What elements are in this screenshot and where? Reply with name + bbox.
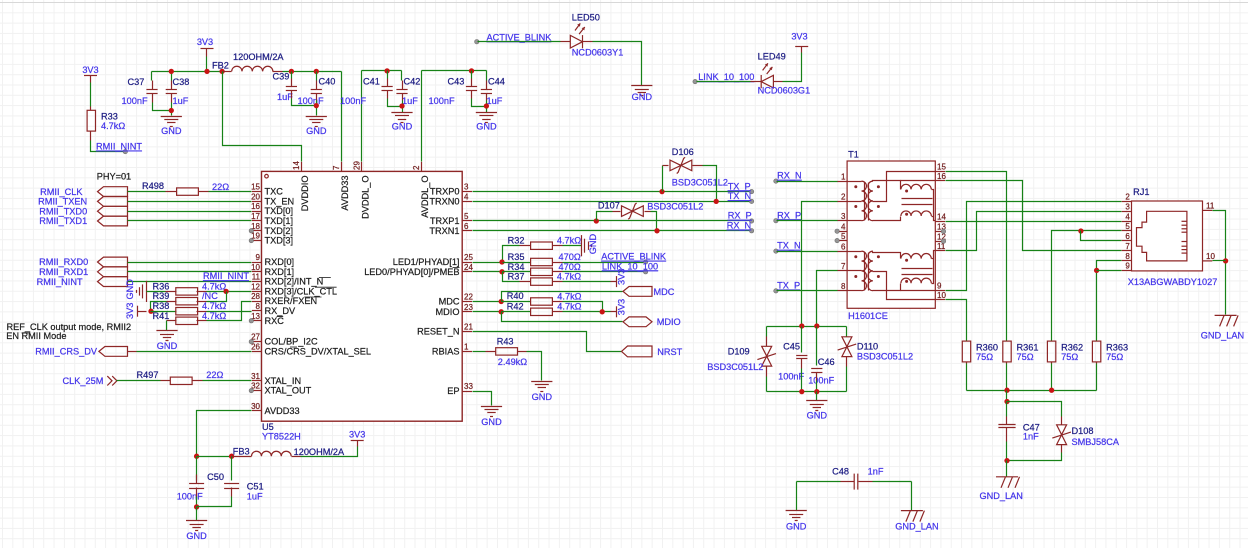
R36 lead right <box>197 291 207 293</box>
wire R497 to XTAL_IN pin 31 <box>203 380 252 382</box>
junction 3V3/rail <box>204 69 209 74</box>
LED LED49 <box>761 63 773 88</box>
T1 winding tap <box>848 181 862 183</box>
pin 22 MDC <box>462 301 472 303</box>
svg-text:MDC: MDC <box>654 287 675 297</box>
core line <box>868 253 870 291</box>
wire FB2 junction to DVDDIO pin 14 <box>223 72 302 162</box>
svg-text:C43: C43 <box>448 77 465 87</box>
junction C37/C38 bottom <box>169 108 174 113</box>
pin 31 XTAL_IN <box>252 380 262 382</box>
svg-text:29: 29 <box>352 161 361 170</box>
net stub TX_P <box>749 189 753 193</box>
resistor R363 <box>1092 341 1100 362</box>
core line <box>902 268 933 270</box>
LED50 lead right <box>583 41 593 43</box>
svg-text:R363: R363 <box>1106 342 1128 352</box>
svg-text:DVDDIO: DVDDIO <box>300 176 310 212</box>
svg-text:24: 24 <box>464 263 473 272</box>
polarity dot <box>905 259 908 262</box>
junction pin22/R40/MDC <box>499 299 504 304</box>
wire RX_P to T1 pin 3 <box>777 220 838 222</box>
C43 lead <box>471 91 473 99</box>
net stub RX_P <box>749 219 753 223</box>
svg-text:AVDD33: AVDD33 <box>265 406 300 416</box>
C38 lead top <box>171 81 173 90</box>
pin 13 RXC <box>252 320 262 322</box>
wire D109 to bottom rail <box>766 377 768 392</box>
svg-text:3V3: 3V3 <box>791 32 807 42</box>
svg-text:GND_LAN: GND_LAN <box>895 522 938 532</box>
T1 wire choke right <box>932 258 934 260</box>
svg-text:GND: GND <box>125 279 135 300</box>
svg-text:3: 3 <box>841 212 846 221</box>
R360 lead <box>966 341 968 342</box>
junction C45 top <box>799 323 804 328</box>
3V3 lead <box>611 281 617 283</box>
wire to D107 <box>597 212 613 221</box>
wire C46 bottom <box>816 381 818 392</box>
unconnected pin dot <box>249 319 253 323</box>
svg-text:30: 30 <box>251 402 260 411</box>
pin 18 TXD[2] <box>252 230 262 232</box>
svg-text:22Ω: 22Ω <box>206 370 223 380</box>
wire to LED50 <box>478 41 561 43</box>
junction C45 bottom <box>799 389 804 394</box>
D109 lead <box>766 337 768 347</box>
svg-text:7: 7 <box>1125 242 1130 251</box>
svg-text:NRST: NRST <box>657 347 682 357</box>
resistor R40 <box>531 298 553 305</box>
svg-text:120OHM/2A: 120OHM/2A <box>294 447 345 457</box>
svg-text:C51: C51 <box>247 482 264 492</box>
T1 pin 14 <box>935 221 945 223</box>
RJ1 pin 5 <box>1122 230 1132 232</box>
port RMII_CLK <box>98 187 128 197</box>
wire R41 to ground <box>166 321 168 331</box>
3V3 power bar (LED49) <box>795 46 808 48</box>
net stub LINK_10_100 (LED49) <box>693 79 697 83</box>
svg-text:GND: GND <box>392 122 413 132</box>
svg-text:100nF: 100nF <box>778 372 804 382</box>
resistor R35 <box>531 258 553 265</box>
svg-text:5: 5 <box>841 232 846 241</box>
port RMII_NINT <box>98 277 128 287</box>
wire T1 pin16 to RJ1 pin7 <box>946 181 1122 251</box>
svg-text:9: 9 <box>1125 262 1130 271</box>
svg-text:4.7kΩ: 4.7kΩ <box>557 302 581 312</box>
ground GND (C37/C38) <box>161 117 182 127</box>
wire RJ1 pin11 to GND_LAN <box>1213 211 1226 315</box>
svg-text:16: 16 <box>937 172 946 181</box>
svg-text:22Ω: 22Ω <box>212 182 229 192</box>
T1 wire pin16 <box>901 180 936 182</box>
wire R39 up to pin 12 net <box>207 292 227 302</box>
wire RMII_NINT to pin 11 <box>128 281 252 283</box>
pin 17 TXD[1] <box>252 220 262 222</box>
svg-text:4.7kΩ: 4.7kΩ <box>202 281 226 291</box>
ground GND (C50/C51) <box>186 521 207 531</box>
svg-text:TXD[1]: TXD[1] <box>265 216 294 226</box>
wire D106 to TX_N <box>703 166 717 202</box>
svg-text:3V3: 3V3 <box>125 303 135 319</box>
pin 32 XTAL_OUT <box>252 390 262 392</box>
wire R38 to pin 8 <box>207 311 252 313</box>
wire RMII_TXEN to pin 20 <box>128 201 252 203</box>
overbar PMEB <box>453 267 460 269</box>
svg-text:25: 25 <box>464 253 473 262</box>
junction C43/C44 bottom <box>484 103 489 108</box>
pin 29 DVDDL_O <box>361 162 363 172</box>
T1 wire secondary bottom to choke <box>873 284 901 291</box>
wire 3V3 to R33 <box>90 83 92 107</box>
svg-text:LINK_10_100: LINK_10_100 <box>602 261 658 271</box>
junction C51/FB3 <box>229 454 234 459</box>
3V3 power bar <box>137 306 139 317</box>
C41 lead <box>387 91 389 99</box>
wire RMII_TXD1 to pin 17 <box>128 220 252 222</box>
svg-text:TX_N: TX_N <box>728 191 752 201</box>
svg-text:17: 17 <box>251 212 260 221</box>
wire MDIO row <box>502 312 623 322</box>
pin 6 TRXN1 <box>462 230 472 232</box>
core line <box>902 204 933 206</box>
junction C41 top <box>384 68 389 73</box>
svg-text:R362: R362 <box>1061 342 1083 352</box>
R362 lead <box>1051 341 1053 342</box>
wire to ground <box>196 507 198 521</box>
wire down to GND <box>796 482 798 511</box>
R362 lead bottom <box>1051 362 1053 364</box>
wire C50 to ground node <box>196 497 198 511</box>
svg-text:100nF: 100nF <box>808 376 834 386</box>
svg-text:11: 11 <box>252 273 261 282</box>
svg-text:GND: GND <box>632 92 653 102</box>
svg-text:RXD[0]: RXD[0] <box>265 257 295 267</box>
port RMII_RXD1 <box>98 267 128 277</box>
svg-text:/NC: /NC <box>202 291 218 301</box>
capacitor C41 <box>382 87 393 91</box>
pin 25 LED1/PHYAD[1] <box>462 262 472 264</box>
svg-text:EP: EP <box>447 386 459 396</box>
resistor R39 <box>176 298 198 305</box>
svg-text:R40: R40 <box>507 291 524 301</box>
R498 lead <box>166 191 177 193</box>
svg-text:RMII_TXD0: RMII_TXD0 <box>39 206 87 216</box>
svg-text:H1601CE: H1601CE <box>848 311 888 321</box>
svg-text:3V3: 3V3 <box>197 37 213 47</box>
svg-text:CRS/CRS_DV/XTAL_SEL: CRS/CRS_DV/XTAL_SEL <box>265 346 372 356</box>
resistor R36 <box>176 288 198 295</box>
junction 3V3/R38/R39 <box>148 309 153 314</box>
port RMII_CRS_DV <box>99 347 128 357</box>
svg-text:15: 15 <box>251 183 260 192</box>
svg-text:R497: R497 <box>137 370 159 380</box>
svg-text:8: 8 <box>841 282 846 291</box>
wire GND to C48 <box>797 481 841 483</box>
net stub ACTIVE_BLINK (LED50) <box>475 40 479 44</box>
D107 lead right <box>645 211 651 213</box>
overbar CLK_CTL <box>315 286 337 288</box>
T1 wire pin15 to center tap <box>873 172 936 202</box>
junction C41/C42 bottom <box>399 103 404 108</box>
wire T1 pin7 center tap down <box>817 271 838 327</box>
pin 28 RXER/FXEN <box>252 301 262 303</box>
wire T1 pin2 center tap down <box>802 202 838 327</box>
pin 23 MDIO <box>462 311 472 313</box>
resistor R37 <box>531 278 553 285</box>
net stub TX_N <box>749 199 753 203</box>
T1 pin 11 <box>935 250 945 252</box>
svg-text:C37: C37 <box>128 77 145 87</box>
svg-text:TRXN0: TRXN0 <box>429 196 459 206</box>
svg-text:TX_P: TX_P <box>777 281 800 291</box>
svg-text:8: 8 <box>256 302 261 311</box>
wire R33 to RMII_NINT <box>91 141 125 152</box>
svg-text:U5: U5 <box>262 422 274 432</box>
svg-text:RMII_CRS_DV: RMII_CRS_DV <box>35 347 98 357</box>
wire rail to C38 <box>171 72 173 81</box>
svg-text:3: 3 <box>1125 203 1130 212</box>
junction C50/C51 bottom <box>194 504 199 509</box>
capacitor C48 <box>854 474 858 490</box>
polarity dots <box>854 255 857 258</box>
port lead <box>128 351 137 353</box>
connector RJ1 body <box>1132 201 1203 271</box>
svg-text:1nF: 1nF <box>868 466 884 476</box>
junction pin25/R32/R35 <box>499 259 504 264</box>
GND_LAN earth ground (RJ1) <box>1215 315 1239 326</box>
svg-text:RMII_TXD1: RMII_TXD1 <box>39 216 87 226</box>
svg-text:D109: D109 <box>728 347 750 357</box>
svg-text:NCD0603G1: NCD0603G1 <box>758 86 811 96</box>
wire TX_N to T1 pin 6 <box>777 251 838 253</box>
transformer T1 body <box>847 161 935 308</box>
T1 pin 6 <box>837 251 847 253</box>
wire DVDDL_O pin 29 riser <box>361 71 363 162</box>
svg-text:D108: D108 <box>1072 426 1094 436</box>
ferrite bead FB2 <box>232 66 273 71</box>
wire TRXP0 pin3 TX_P <box>473 191 751 193</box>
resistor R360 <box>962 341 970 362</box>
svg-text:ACTIVE_BLINK: ACTIVE_BLINK <box>487 32 553 42</box>
ground GND (C39/C40) <box>306 117 327 127</box>
polarity dot <box>905 280 908 283</box>
svg-text:4: 4 <box>841 222 846 231</box>
wire pin25 net up to R32 <box>503 246 520 263</box>
TVS diode D110 <box>838 337 857 357</box>
svg-text:BSD3C051L2: BSD3C051L2 <box>672 177 728 187</box>
svg-text:R42: R42 <box>507 302 524 312</box>
T1 winding tap <box>848 201 862 203</box>
wire rail to FB3 <box>197 456 232 458</box>
D108 lead bottom <box>1061 445 1063 453</box>
wire to C45 <box>801 327 803 353</box>
C40 lead <box>316 94 318 101</box>
R38 lead right <box>197 311 207 313</box>
R361 lead bottom <box>1006 362 1008 364</box>
LED49 lead <box>751 81 762 83</box>
R32 lead <box>520 245 531 247</box>
wire rail to C43 <box>471 71 473 79</box>
svg-text:NCD0603Y1: NCD0603Y1 <box>572 47 624 57</box>
svg-text:C40: C40 <box>319 77 336 87</box>
GND_LAN earth ground (C48) <box>901 511 925 522</box>
R41 lead left <box>167 320 177 322</box>
resistor R34 <box>531 268 553 275</box>
svg-text:LED49: LED49 <box>758 52 786 62</box>
wire TRXN1 pin6 RX_N <box>473 230 751 232</box>
pin 21 RESET_N <box>462 331 472 333</box>
svg-text:20: 20 <box>251 192 260 201</box>
ground GND (C48) <box>786 511 807 521</box>
net stub RX_N <box>749 229 753 233</box>
svg-text:C39: C39 <box>273 72 290 82</box>
pin 33 EP <box>462 391 472 393</box>
wire MDC row <box>502 292 623 302</box>
unconnected T1 pin 5 <box>835 238 839 242</box>
svg-text:MDC: MDC <box>439 297 460 307</box>
svg-text:FB2: FB2 <box>212 61 229 71</box>
net stub TX_N (T1) <box>774 249 778 253</box>
svg-text:1uF: 1uF <box>487 96 503 106</box>
wire rail to C40 <box>316 72 318 81</box>
svg-text:RX_N: RX_N <box>777 171 802 181</box>
C44 lead top <box>486 81 488 90</box>
T1 winding tap <box>848 251 862 253</box>
RJ1 pin 3 <box>1122 211 1132 213</box>
svg-text:2: 2 <box>1125 193 1130 202</box>
resistor R33 <box>87 110 95 131</box>
wire C38 bottom to ground <box>171 103 173 116</box>
wire R32 to ground <box>563 245 582 247</box>
pin 1 RBIAS <box>462 351 472 353</box>
C42 lead top <box>402 81 404 90</box>
pin 9 RXD[0] <box>252 262 262 264</box>
R43 lead right <box>518 351 527 353</box>
R37 lead <box>520 281 531 283</box>
T1 common-mode choke winding <box>901 184 931 189</box>
svg-text:4: 4 <box>464 192 469 201</box>
wire R362 to rail <box>1051 364 1053 391</box>
svg-text:GND: GND <box>588 234 598 255</box>
svg-text:R35: R35 <box>508 252 525 262</box>
pin 20 TX_EN <box>252 201 262 203</box>
svg-text:MDIO: MDIO <box>657 317 681 327</box>
wire RESET_N to NRST <box>473 332 622 352</box>
resistor R43 <box>496 348 518 355</box>
svg-text:RMII_RXD1: RMII_RXD1 <box>39 267 88 277</box>
port MDC <box>623 287 652 297</box>
svg-text:C44: C44 <box>488 77 505 87</box>
polarity dots <box>877 185 880 188</box>
capacitor C38 <box>166 90 177 94</box>
C39 lead <box>291 91 293 99</box>
wire RMII_TXD0 to pin 16 <box>128 211 252 213</box>
port NRST <box>622 346 653 357</box>
3V3 lead <box>357 441 359 447</box>
C43 lead top <box>471 79 473 87</box>
C45 lead <box>801 359 803 369</box>
wire EP to ground <box>473 392 492 406</box>
pin 24 LED0/PHYAD[0]/PMEB <box>462 271 472 273</box>
polarity dots <box>877 255 880 258</box>
overbar RMII note <box>22 332 29 334</box>
svg-text:R36: R36 <box>153 281 170 291</box>
wire C40 bottom to ground <box>316 101 318 116</box>
T1 pin 7 <box>837 270 847 272</box>
junction RJ1 pin10 <box>1223 258 1228 263</box>
IC U5 YT8522H body <box>262 171 463 421</box>
svg-text:C38: C38 <box>173 77 190 87</box>
wire pin 22 <box>473 301 502 303</box>
3V3 power bar <box>201 48 214 50</box>
FB3 lead right <box>292 456 301 458</box>
port RMII_TXD1 <box>98 216 128 226</box>
wire RMII_RXD1 to pin 10 <box>128 271 252 273</box>
svg-text:RMII_NINT: RMII_NINT <box>96 142 142 152</box>
port RMII_RXD0 <box>98 257 128 267</box>
wire rail to C51 <box>231 457 233 481</box>
pin 14 DVDDIO <box>301 162 303 172</box>
diode D108 (TVS SMBJ58CA) <box>1052 425 1071 445</box>
svg-text:R38: R38 <box>153 301 170 311</box>
svg-text:3V3: 3V3 <box>82 65 98 75</box>
junction D107 right <box>654 228 659 233</box>
unconnected T1 pin 4 <box>835 229 839 233</box>
T1 pin 8 <box>837 290 847 292</box>
T1 secondary winding (bottom) <box>868 251 873 291</box>
port RMII_TXD0 <box>98 206 128 216</box>
wire rail to C50 <box>196 457 198 481</box>
svg-text:COL/BP_I2C: COL/BP_I2C <box>265 337 318 347</box>
core line <box>902 198 933 200</box>
svg-text:TRXP1: TRXP1 <box>430 216 460 226</box>
wire C42 bottom to ground <box>402 101 404 113</box>
wire pin24 net down to R37 <box>503 272 520 282</box>
wire RX_N to T1 pin 1 <box>777 181 838 183</box>
RJ1 pin 11 <box>1203 209 1213 211</box>
wire RJ1 pin8 to R363 <box>1097 261 1122 341</box>
LED49 lead right <box>774 81 783 83</box>
svg-text:GND: GND <box>807 410 828 420</box>
T1 winding tap <box>848 270 862 272</box>
capacitor C50 <box>189 484 204 489</box>
svg-text:9: 9 <box>937 282 942 291</box>
T1 pin 13 <box>935 231 945 233</box>
pin 16 TXD[0] <box>252 211 262 213</box>
svg-text:TXC: TXC <box>265 187 284 197</box>
net stub RMII_NINT <box>123 149 127 153</box>
T1 wire pin9 <box>901 290 936 292</box>
3V3 power bar (FB3) <box>351 440 364 442</box>
C37 lead <box>152 94 154 103</box>
R363 lead bottom <box>1096 362 1098 364</box>
junction R362/rail <box>1049 388 1054 393</box>
svg-text:RX_P: RX_P <box>777 210 801 220</box>
svg-text:BSD3C051L2: BSD3C051L2 <box>857 351 913 361</box>
wire pin 24 <box>473 271 503 273</box>
3V3 lead <box>611 311 617 313</box>
wire to C46 <box>816 327 818 366</box>
ground (R36 left) <box>137 281 147 302</box>
wire to C47 <box>1006 402 1008 417</box>
T1 pin 10 <box>935 299 945 301</box>
wire T1 pin14 to RJ1 pin4 <box>946 221 1122 223</box>
wire ground to R36 <box>147 291 166 293</box>
svg-text:D106: D106 <box>672 147 694 157</box>
pin 19 TXD[3] <box>252 240 262 242</box>
